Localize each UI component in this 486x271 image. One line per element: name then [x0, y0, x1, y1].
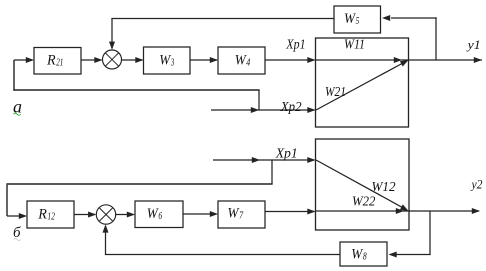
svg-text:y1: y1: [466, 37, 481, 52]
svg-text:W11: W11: [344, 37, 365, 52]
svg-text:4: 4: [246, 57, 250, 68]
svg-text:W21: W21: [325, 85, 346, 100]
svg-text:12: 12: [47, 212, 55, 223]
svg-text:Xp2: Xp2: [280, 100, 302, 115]
svg-text:R: R: [46, 52, 56, 68]
svg-text:W22: W22: [352, 195, 375, 210]
svg-text:8: 8: [363, 252, 367, 263]
svg-text:6: 6: [158, 211, 162, 222]
svg-text:3: 3: [170, 57, 174, 68]
svg-text:y2: y2: [470, 177, 483, 192]
svg-text:5: 5: [356, 16, 360, 27]
svg-text:Xp1: Xp1: [275, 147, 298, 162]
svg-text:21: 21: [56, 57, 63, 68]
svg-text:R: R: [37, 207, 47, 223]
svg-text:W12: W12: [372, 180, 396, 195]
svg-text:Xp1: Xp1: [285, 37, 305, 52]
